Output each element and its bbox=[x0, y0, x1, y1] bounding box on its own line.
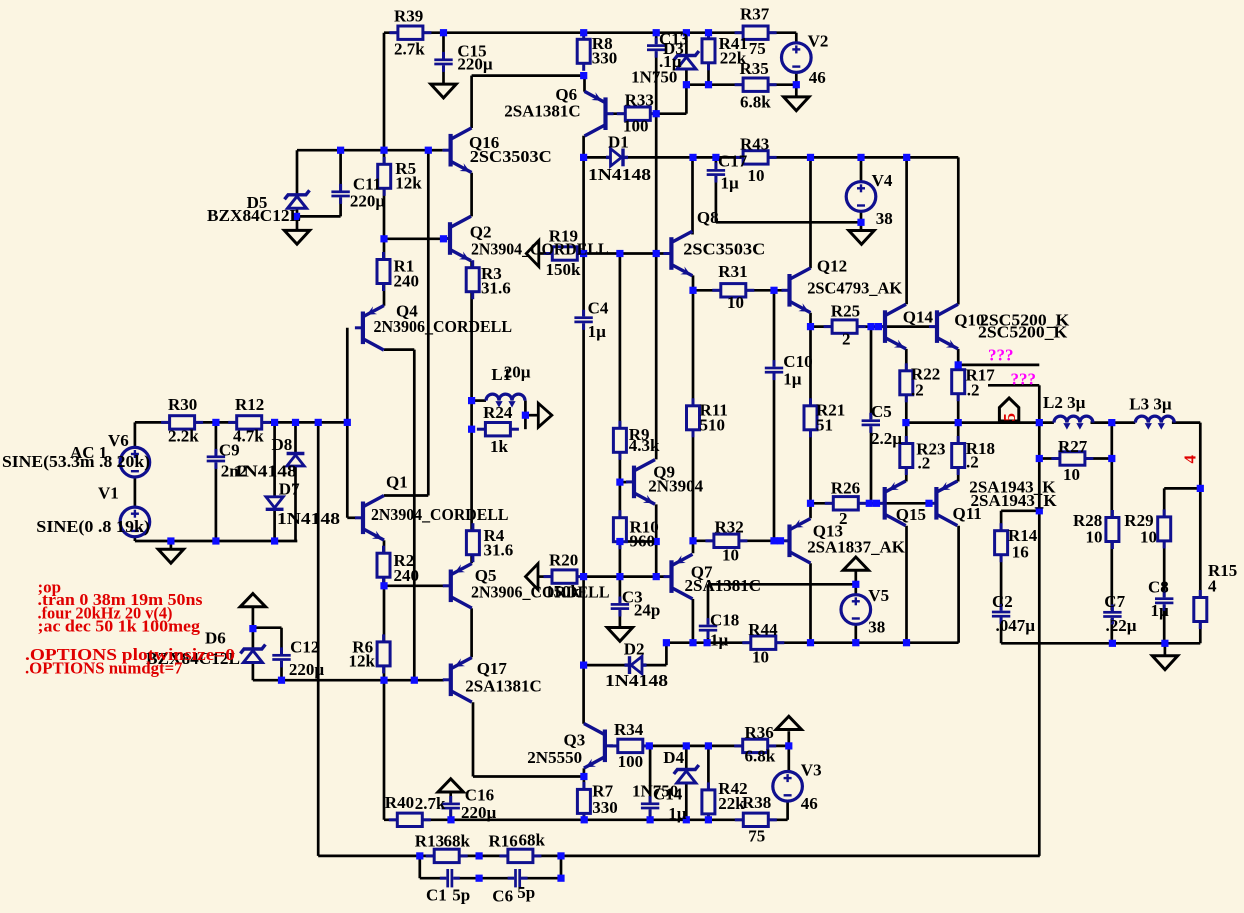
junction (347.3,422.4) bbox=[344, 419, 351, 426]
svg-text:V6: V6 bbox=[108, 431, 129, 450]
svg-text:Q1: Q1 bbox=[386, 472, 408, 491]
resistor R34 bbox=[609, 739, 651, 752]
svg-text:240: 240 bbox=[394, 566, 420, 585]
svg-text:2N3904: 2N3904 bbox=[648, 477, 703, 496]
resistor R36 bbox=[734, 739, 776, 752]
resistor R7 bbox=[577, 782, 590, 821]
svg-text:D1: D1 bbox=[608, 133, 629, 152]
wire L1 left lead bbox=[472, 399, 486, 402]
junction (281.5,680.2) bbox=[278, 677, 285, 684]
wire R9-R10-C3 rail bbox=[619, 254, 622, 628]
svg-text:C5: C5 bbox=[871, 402, 892, 421]
power flag D6 bbox=[240, 594, 265, 607]
junction (810.5,326.6) bbox=[807, 323, 814, 330]
voltage source V5 bbox=[841, 595, 871, 625]
resistor R24 bbox=[477, 423, 519, 436]
resistor R39 bbox=[389, 26, 431, 39]
junction (561,855.9) bbox=[557, 852, 564, 859]
wire feedback bus bbox=[318, 855, 1040, 858]
wire Q2 base row bbox=[384, 237, 444, 240]
wire Q13 collector drop bbox=[809, 563, 812, 642]
svg-text:10: 10 bbox=[748, 166, 765, 185]
svg-text:2N3904_CORDELL: 2N3904_CORDELL bbox=[471, 239, 609, 258]
wire top +46 rail bbox=[384, 31, 796, 34]
wire C18 leg bbox=[707, 584, 710, 642]
junction (619.9,482.1) bbox=[616, 479, 623, 486]
wire Q9 base stub bbox=[620, 481, 628, 484]
svg-text:R35: R35 bbox=[740, 59, 769, 78]
svg-text:C1: C1 bbox=[426, 885, 447, 904]
ground V2 bbox=[784, 97, 809, 111]
resistor R3 bbox=[466, 260, 479, 299]
resistor R11 bbox=[687, 398, 700, 437]
wire R20 port lead bbox=[539, 575, 552, 578]
wire R23 leg bbox=[905, 423, 908, 482]
svg-text:10: 10 bbox=[1140, 527, 1157, 546]
wire L1-R24 right link bbox=[524, 401, 527, 430]
wire Q11 collector drop bbox=[957, 526, 960, 643]
resistor R10 bbox=[613, 510, 626, 549]
svg-text:Q14: Q14 bbox=[903, 308, 934, 327]
svg-text:1µ: 1µ bbox=[783, 370, 802, 389]
junction (583.6,665.1) bbox=[580, 662, 587, 669]
resistor R29 bbox=[1158, 509, 1171, 548]
svg-text:1µ: 1µ bbox=[588, 322, 607, 341]
svg-text:C2: C2 bbox=[992, 592, 1013, 611]
voltage source V1 bbox=[120, 507, 150, 537]
svg-text:R39: R39 bbox=[394, 7, 423, 26]
wire R20 to Q7 base bbox=[584, 575, 665, 578]
wire Q7 collector drop bbox=[692, 599, 695, 643]
svg-text:R27: R27 bbox=[1058, 437, 1088, 456]
wire Q16 base stub bbox=[428, 149, 442, 152]
svg-text:10: 10 bbox=[752, 648, 769, 667]
resistor R6 bbox=[377, 634, 390, 673]
svg-text:C16: C16 bbox=[465, 785, 494, 804]
svg-text:.047µ: .047µ bbox=[996, 616, 1036, 635]
junction (584.2,819.8) bbox=[581, 816, 588, 823]
svg-text:2.7k: 2.7k bbox=[415, 794, 446, 813]
junction (855.8,642.7) bbox=[852, 639, 859, 646]
svg-text:16: 16 bbox=[1012, 543, 1029, 562]
svg-text:R40: R40 bbox=[385, 793, 414, 812]
wire bottom bias bus bbox=[384, 818, 788, 821]
svg-text:2N3904_CORDELL: 2N3904_CORDELL bbox=[371, 505, 509, 524]
svg-text:960: 960 bbox=[630, 532, 656, 551]
transistor Q13 bbox=[782, 519, 811, 564]
svg-text:Q17: Q17 bbox=[477, 659, 508, 678]
wire Q10 emitter bbox=[957, 349, 960, 365]
svg-text:BZX84C12L: BZX84C12L bbox=[207, 206, 301, 225]
wire C1-C6 row bbox=[420, 877, 561, 880]
voltage source V6 bbox=[120, 447, 150, 477]
wire D5 leg bbox=[296, 150, 299, 230]
capacitor C5 bbox=[862, 413, 880, 433]
wire Q3 base stub bbox=[611, 745, 618, 748]
svg-text:L2 3µ: L2 3µ bbox=[1043, 393, 1086, 412]
wire D7 leg bbox=[273, 422, 276, 541]
capacitor C2 bbox=[992, 604, 1010, 624]
junction (876.5,503.3) bbox=[873, 500, 880, 507]
junction (1164.9,643.3) bbox=[1161, 640, 1168, 647]
junction (384,680.2) bbox=[380, 677, 387, 684]
svg-text:R13: R13 bbox=[415, 832, 444, 851]
svg-text:R33: R33 bbox=[625, 91, 654, 110]
junction (686.3,819.8) bbox=[683, 816, 690, 823]
wire net ??? stub 1 bbox=[958, 364, 1039, 367]
junction (686.4,32.7) bbox=[683, 29, 690, 36]
wire gnd stub bbox=[170, 541, 173, 549]
svg-text:68k: 68k bbox=[519, 830, 546, 849]
port flag L1/R24 bbox=[538, 403, 552, 427]
resistor R15 bbox=[1194, 590, 1207, 629]
junction (788.8,745.9) bbox=[785, 742, 792, 749]
junction (1112.4,643.3) bbox=[1109, 640, 1116, 647]
wire source ground bus bbox=[135, 540, 297, 543]
resistor R30 bbox=[161, 416, 203, 429]
junction (215.9,422.4) bbox=[212, 419, 219, 426]
junction (295.5,422.4) bbox=[292, 419, 299, 426]
junction (780.5,540.8) bbox=[777, 537, 784, 544]
resistor R16 bbox=[499, 849, 541, 862]
capacitor C8 bbox=[1155, 591, 1173, 611]
junction (707.1,642.7) bbox=[704, 639, 711, 646]
svg-text:C14: C14 bbox=[653, 785, 683, 804]
junction (774,290.3) bbox=[770, 287, 777, 294]
junction (958.2,422.6) bbox=[955, 419, 962, 426]
wire C12 leg bbox=[280, 628, 283, 681]
junction (619.9,253.5) bbox=[616, 250, 623, 257]
junction (708.4,745.9) bbox=[705, 742, 712, 749]
wire V3 bottom bbox=[786, 801, 789, 819]
wire Q14 emitter R22 leg bbox=[905, 349, 908, 423]
junction (451,819.8) bbox=[447, 816, 454, 823]
wire Q8 collector rail bbox=[691, 157, 694, 234]
junction (656.2,576.6) bbox=[653, 573, 660, 580]
wire R14 C2 rail bbox=[1000, 511, 1003, 644]
svg-text:150k: 150k bbox=[546, 260, 582, 279]
svg-text:.2: .2 bbox=[918, 454, 931, 473]
zener D5 bbox=[285, 190, 310, 208]
resistor R20 bbox=[544, 570, 586, 583]
resistor R26 bbox=[825, 497, 867, 510]
junction (252.9,628.6) bbox=[249, 625, 256, 632]
wire R3-R4 rail bbox=[470, 261, 473, 563]
svg-text:1µ: 1µ bbox=[721, 174, 740, 193]
wire R41 drop bbox=[707, 33, 710, 85]
svg-text:R34: R34 bbox=[614, 720, 644, 739]
svg-text:20µ: 20µ bbox=[504, 363, 531, 382]
junction (1111.8,458.5) bbox=[1108, 455, 1115, 462]
svg-text:.22µ: .22µ bbox=[1106, 616, 1137, 635]
svg-text:.1µ: .1µ bbox=[659, 52, 682, 71]
wire Q17 collector drop bbox=[472, 702, 475, 776]
wire port stub bbox=[525, 414, 538, 417]
junction (666.4,642.7) bbox=[663, 639, 670, 646]
svg-text:2SC4793_AK: 2SC4793_AK bbox=[807, 279, 903, 298]
svg-text:C4: C4 bbox=[588, 299, 609, 318]
junction (583.7,32.7) bbox=[580, 29, 587, 36]
svg-text:V1: V1 bbox=[98, 484, 119, 503]
wire D3 drop bbox=[685, 33, 688, 85]
svg-text:75: 75 bbox=[749, 39, 766, 58]
wire Q4 collector drop rail bbox=[413, 350, 416, 681]
wire ??? to output bbox=[1038, 385, 1041, 422]
wire D6 leg bbox=[252, 607, 255, 680]
junction (650.1,819.8) bbox=[647, 816, 654, 823]
svg-text:D2: D2 bbox=[624, 640, 645, 659]
svg-text:2SA1381C: 2SA1381C bbox=[504, 102, 581, 121]
wire output bus left bbox=[906, 421, 1054, 424]
resistor R37 bbox=[735, 26, 777, 39]
svg-text:2SA1943_K: 2SA1943_K bbox=[971, 491, 1058, 510]
transistor Q14 bbox=[877, 304, 906, 349]
wire C14 leg bbox=[649, 746, 652, 820]
diode D7 bbox=[266, 497, 284, 510]
junction (708.4,819.8) bbox=[705, 816, 712, 823]
junction (443.5,238.8) bbox=[440, 235, 447, 242]
port flag R19 bbox=[526, 241, 539, 267]
svg-text:R25: R25 bbox=[831, 302, 860, 321]
svg-text:46: 46 bbox=[801, 794, 818, 813]
junction (1039.3,422.6) bbox=[1036, 419, 1043, 426]
diode D2 bbox=[625, 656, 647, 674]
wire V6-V1 leg bbox=[134, 422, 137, 541]
capacitor C3 bbox=[611, 597, 629, 617]
capacitor C14 bbox=[641, 796, 659, 816]
junction (384,585.8) bbox=[380, 582, 387, 589]
wire C17 drop bbox=[715, 157, 718, 222]
svg-text:1N4148: 1N4148 bbox=[588, 165, 651, 184]
wire D4 leg bbox=[685, 746, 688, 820]
wire output to feedback rail bbox=[1038, 423, 1041, 856]
resistor R35 bbox=[735, 78, 777, 91]
svg-text:220µ: 220µ bbox=[461, 803, 497, 822]
capacitor C11 bbox=[331, 184, 349, 204]
junction (583.6,157.4) bbox=[580, 154, 587, 161]
wire Q16 emitter to Q2 collector bbox=[470, 173, 473, 217]
capacitor C4 bbox=[574, 310, 592, 330]
wire L3 to corner bbox=[1172, 421, 1200, 424]
wire zobel ground bus bbox=[1001, 642, 1200, 645]
svg-text:330: 330 bbox=[592, 49, 618, 68]
svg-text:24p: 24p bbox=[634, 601, 660, 620]
svg-text:68k: 68k bbox=[444, 832, 471, 851]
transistor Q7 bbox=[664, 554, 693, 599]
resistor R32 bbox=[705, 534, 747, 547]
junction (274.6,541) bbox=[271, 537, 278, 544]
wire mid rail y157 bbox=[584, 156, 959, 159]
junction (384,238.8) bbox=[380, 235, 387, 242]
wire R8 bottom row bbox=[472, 74, 584, 77]
resistor R14 bbox=[995, 523, 1008, 562]
junction (296.5,216.4) bbox=[293, 213, 300, 220]
wire Q1 base stub bbox=[347, 516, 356, 519]
capacitor C1 bbox=[440, 869, 460, 887]
junction (656.2,541.5) bbox=[653, 538, 660, 545]
svg-text:38: 38 bbox=[876, 209, 893, 228]
wire R6 leg bbox=[383, 586, 386, 680]
ground C15 bbox=[431, 84, 456, 98]
svg-text:V5: V5 bbox=[868, 586, 889, 605]
junction (905.9,422.6) bbox=[902, 419, 909, 426]
junction (649.3,745.9) bbox=[646, 742, 653, 749]
svg-text:46: 46 bbox=[809, 68, 826, 87]
svg-text:C13: C13 bbox=[659, 30, 688, 49]
wire D8 leg bbox=[294, 422, 297, 541]
wire Q17 collector to R7 row bbox=[473, 775, 584, 778]
wire R33 row bbox=[612, 112, 656, 115]
resistor R44 bbox=[742, 636, 784, 649]
junction (274.6,422.4) bbox=[271, 419, 278, 426]
svg-text:D8: D8 bbox=[272, 435, 293, 454]
wire C11 leg bbox=[339, 150, 342, 216]
junction (686.3,745.9) bbox=[683, 742, 690, 749]
svg-text:220µ: 220µ bbox=[457, 55, 493, 74]
junction (384,150.2) bbox=[380, 147, 387, 154]
resistor R23 bbox=[900, 436, 913, 475]
svg-text:2SC5200_K: 2SC5200_K bbox=[978, 323, 1068, 342]
svg-text:2N3906_CORDELL: 2N3906_CORDELL bbox=[471, 583, 610, 602]
wire R19 to Q8 base bbox=[584, 252, 665, 255]
wire left rail x384 bbox=[383, 33, 386, 239]
wire C12 top link bbox=[253, 626, 282, 629]
capacitor C13 bbox=[647, 38, 665, 58]
wire V2 drop bbox=[795, 33, 798, 97]
junction (471.6,400.6) bbox=[468, 397, 475, 404]
wire Q9 emitter drop bbox=[655, 504, 658, 576]
junction (619.9,541.5) bbox=[616, 538, 623, 545]
junction (479.1,878.2) bbox=[476, 875, 483, 882]
transistor Q5 bbox=[443, 564, 472, 609]
svg-text:2SC3503C: 2SC3503C bbox=[683, 239, 765, 258]
inductor L1 bbox=[486, 394, 525, 408]
capacitor C12 bbox=[272, 647, 290, 667]
svg-text:D4: D4 bbox=[663, 748, 684, 767]
svg-text:220µ: 220µ bbox=[289, 660, 325, 679]
transistor Q1 bbox=[355, 496, 384, 541]
capacitor C15 bbox=[434, 52, 452, 72]
voltage source V3 bbox=[773, 772, 803, 802]
junction (656.2,32.7) bbox=[653, 29, 660, 36]
junction (774,540.8) bbox=[770, 537, 777, 544]
svg-text:.2: .2 bbox=[967, 381, 980, 400]
transistor Q2 bbox=[442, 216, 471, 261]
svg-text:;ac dec 50 1k 100meg: ;ac dec 50 1k 100meg bbox=[38, 617, 201, 636]
wire Q10 collector rail bbox=[957, 157, 960, 304]
power flag C16 bbox=[438, 779, 463, 792]
wire R19 port lead bbox=[539, 252, 552, 255]
wire C15 drop bbox=[442, 33, 445, 84]
wire bias row y150 bbox=[297, 149, 428, 152]
junction (958.2,364.9) bbox=[955, 361, 962, 368]
wire Q5 collector to Q17 emitter bbox=[470, 608, 473, 657]
svg-text:1µ: 1µ bbox=[1151, 601, 1170, 620]
port 5 pentagon bbox=[999, 398, 1018, 421]
svg-text:2SA1837_AK: 2SA1837_AK bbox=[807, 538, 905, 557]
junction (471.6,429.2) bbox=[468, 426, 475, 433]
capacitor C10 bbox=[765, 360, 783, 380]
svg-text:6.8k: 6.8k bbox=[740, 93, 771, 112]
junction (929,503.3) bbox=[925, 500, 932, 507]
svg-text:C8: C8 bbox=[1148, 577, 1169, 596]
wire bias row y746 bbox=[642, 745, 789, 748]
wire Q3 emitter / R7 leg bbox=[583, 768, 586, 820]
junction (871,326.6) bbox=[867, 323, 874, 330]
junction (561,878.2) bbox=[557, 875, 564, 882]
transistor Q8 bbox=[663, 231, 692, 276]
svg-text:SINE(53.3m .8 20k): SINE(53.3m .8 20k) bbox=[2, 452, 150, 471]
svg-text:R30: R30 bbox=[168, 395, 197, 414]
voltage source V4 bbox=[846, 182, 876, 212]
wire R2 leg bbox=[383, 540, 386, 586]
capacitor C16 bbox=[442, 796, 460, 816]
ground D5 bbox=[284, 230, 309, 244]
junction (810.5,503.3) bbox=[807, 500, 814, 507]
wire V3 top leg bbox=[787, 731, 790, 771]
resistor R43 bbox=[735, 151, 777, 164]
ground input bbox=[158, 549, 183, 563]
svg-text:Q11: Q11 bbox=[953, 504, 982, 523]
junction (215.9,541) bbox=[212, 537, 219, 544]
svg-text:100: 100 bbox=[618, 752, 644, 771]
svg-text:10: 10 bbox=[1086, 527, 1103, 546]
svg-text:Q12: Q12 bbox=[817, 257, 847, 276]
resistor R17 bbox=[952, 362, 965, 401]
wire R32 row bbox=[693, 539, 783, 542]
svg-text:240: 240 bbox=[394, 272, 420, 291]
junction (583.6,576.6) bbox=[580, 573, 587, 580]
resistor R21 bbox=[804, 398, 817, 437]
svg-text:???: ??? bbox=[988, 346, 1014, 365]
junction (693,290.3) bbox=[689, 287, 696, 294]
wire R35 row bbox=[686, 83, 796, 86]
wire C1 left drop bbox=[418, 856, 421, 878]
wire D2 riser bbox=[665, 643, 668, 665]
wire Q4 base rail bbox=[346, 328, 349, 518]
svg-text:31.6: 31.6 bbox=[481, 279, 511, 298]
junction (583.7,75.6) bbox=[580, 72, 587, 79]
resistor R27 bbox=[1051, 452, 1093, 465]
diode D8 bbox=[287, 454, 305, 467]
wire V- bus bbox=[666, 641, 958, 644]
wire gnd stub zobel bbox=[1164, 643, 1167, 656]
wire Q6 emitter bbox=[583, 76, 586, 92]
wire R18 leg bbox=[957, 423, 960, 482]
junction (318.2,422.4) bbox=[315, 419, 322, 426]
wire R10 to Q9 emitter link bbox=[620, 540, 656, 543]
svg-text:.2: .2 bbox=[966, 453, 979, 472]
wire R1 leg bbox=[383, 239, 386, 306]
transistor Q6 bbox=[585, 91, 614, 136]
resistor R1 bbox=[377, 252, 390, 291]
svg-text:1µ: 1µ bbox=[668, 804, 687, 823]
wire Q1 collector row bbox=[384, 494, 428, 497]
wire Q17 base bus bbox=[253, 679, 444, 682]
ground V4 bbox=[849, 231, 874, 245]
junction (428.3,150.2) bbox=[425, 147, 432, 154]
svg-text:R44: R44 bbox=[748, 620, 778, 639]
svg-text:31.6: 31.6 bbox=[484, 541, 514, 560]
resistor R42 bbox=[702, 782, 715, 821]
wire R31 row bbox=[693, 289, 783, 292]
svg-text:5p: 5p bbox=[452, 885, 470, 904]
wire C9 leg bbox=[215, 422, 218, 541]
svg-text:C18: C18 bbox=[710, 611, 739, 630]
svg-text:C6: C6 bbox=[492, 887, 513, 906]
svg-text:1k: 1k bbox=[490, 437, 509, 456]
svg-text:2SA1381C: 2SA1381C bbox=[685, 576, 762, 595]
